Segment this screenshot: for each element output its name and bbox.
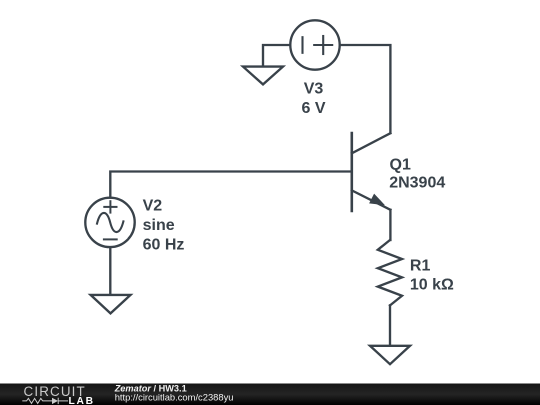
wire V2 negative to ground [109,247,111,295]
svg-text:60 Hz: 60 Hz [143,237,185,254]
voltage source V3 (DC) [290,20,339,69]
wire V3 positive to collector node [341,45,391,133]
wire V3 negative to ground [263,45,290,67]
svg-text:LAB: LAB [69,396,95,405]
svg-text:6 V: 6 V [301,100,325,117]
voltage source V2 (sine) [85,198,134,247]
svg-text:V3: V3 [304,80,324,97]
svg-text:10 kΩ: 10 kΩ [410,277,454,294]
footer bar [0,384,540,405]
svg-text:2N3904: 2N3904 [389,175,445,192]
wire Q1 emitter to R1 [389,210,391,240]
svg-text:http://circuitlab.com/c2388yu: http://circuitlab.com/c2388yu [115,392,234,403]
svg-text:V2: V2 [143,198,163,215]
wire base node from V2 to Q1 base [110,172,351,198]
svg-text:Q1: Q1 [390,156,411,173]
ground (top left, V3) [243,67,283,85]
svg-text:sine: sine [143,217,175,234]
ground (below V2) [91,295,131,314]
logo resistor-diode glyph [22,398,68,404]
wire R1 to ground [389,305,391,345]
ground (below R1) [370,346,410,364]
resistor R1 [378,240,402,305]
svg-text:R1: R1 [410,258,431,275]
transistor Q1 (NPN 2N3904) [352,133,391,211]
